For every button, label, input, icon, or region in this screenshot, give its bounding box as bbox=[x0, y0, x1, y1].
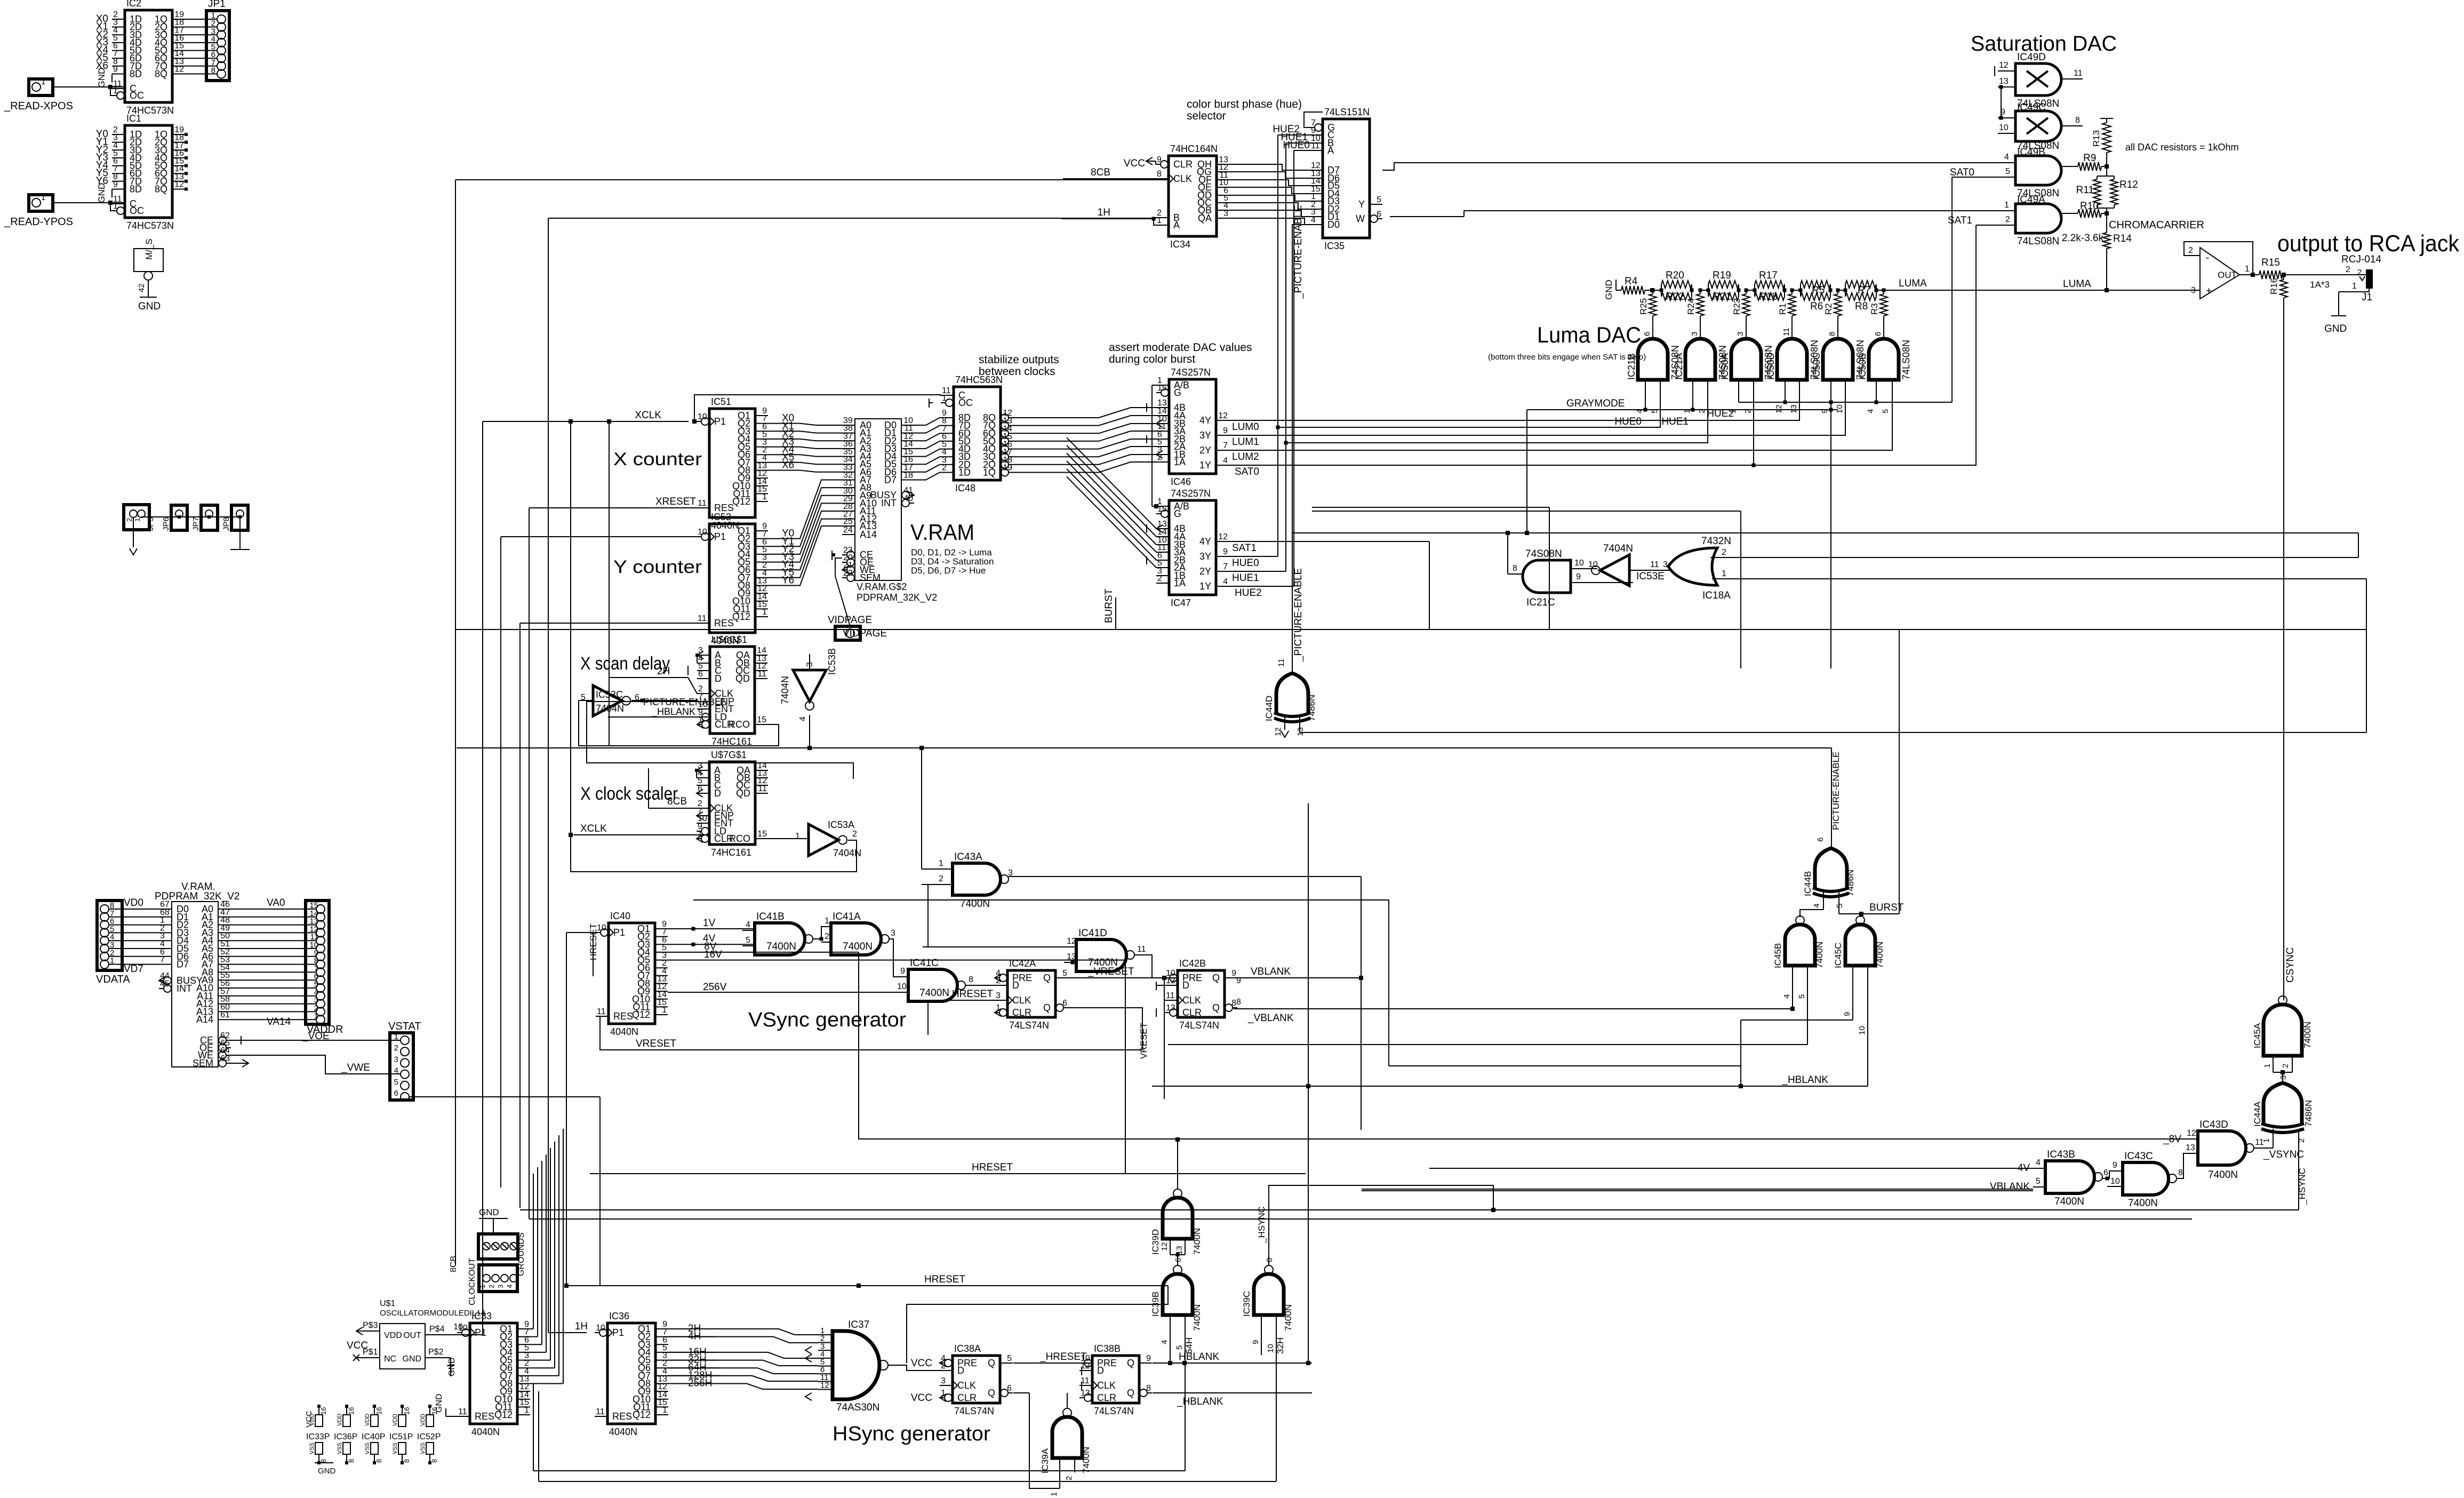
inverter IC53A 7404N bbox=[809, 824, 838, 856]
svg-text:7400N: 7400N bbox=[1081, 1447, 1091, 1473]
svg-text:11: 11 bbox=[698, 614, 707, 623]
svg-text:19: 19 bbox=[1003, 464, 1012, 473]
svg-text:42: 42 bbox=[137, 283, 146, 292]
svg-text:U$1: U$1 bbox=[380, 1299, 395, 1308]
svg-text:IC39B: IC39B bbox=[1150, 1292, 1161, 1317]
svg-text:assert moderate DAC values: assert moderate DAC values bbox=[1109, 341, 1252, 354]
JP1 pin 8 bbox=[217, 70, 226, 78]
wire IC48 C from XCLK bbox=[694, 395, 941, 421]
svg-text:IC2: IC2 bbox=[126, 0, 141, 9]
svg-text:7400N: 7400N bbox=[766, 941, 796, 952]
wire VBLANK riser to IC43B bbox=[1362, 1190, 2033, 1191]
wire Y clock riser bbox=[500, 537, 501, 1188]
svg-text:74LS74N: 74LS74N bbox=[1009, 1020, 1049, 1031]
svg-text:A: A bbox=[1173, 220, 1180, 230]
svg-text:JP5: JP5 bbox=[146, 517, 155, 531]
wire YRESET riser bbox=[519, 623, 521, 1208]
svg-text:X6: X6 bbox=[782, 460, 794, 471]
power block IC36P bbox=[345, 1405, 348, 1408]
jumper M/_S bbox=[134, 249, 163, 272]
svg-text:15: 15 bbox=[757, 715, 766, 724]
oscillator U$1 OSCILLATORMODULEDIL14 bbox=[380, 1324, 425, 1369]
svg-text:D: D bbox=[715, 673, 722, 684]
svg-text:R24: R24 bbox=[1686, 298, 1696, 315]
resistors R11 R12 parallel bbox=[2106, 166, 2107, 176]
svg-text:4: 4 bbox=[1866, 409, 1875, 413]
svg-text:IC50D: IC50D bbox=[1765, 353, 1776, 380]
wire 8CB from top-left down to clock area bbox=[455, 179, 1169, 180]
svg-text:8: 8 bbox=[319, 1459, 327, 1463]
svg-text:11: 11 bbox=[758, 784, 767, 793]
wire IC53A output feedback to XCLK node bbox=[571, 831, 857, 872]
svg-text:10: 10 bbox=[1835, 404, 1844, 413]
svg-text:1: 1 bbox=[762, 608, 767, 617]
svg-text:10: 10 bbox=[897, 982, 907, 991]
svg-text:IC51P: IC51P bbox=[389, 1432, 413, 1441]
svg-text:8: 8 bbox=[347, 1459, 355, 1463]
svg-text:8D: 8D bbox=[130, 69, 142, 79]
wire _HRESET bbox=[1013, 1362, 1092, 1364]
svg-text:GND: GND bbox=[1604, 280, 1614, 300]
svg-text:1: 1 bbox=[698, 830, 702, 839]
mux IC47 74S257N bbox=[1169, 500, 1216, 595]
svg-text:7400N: 7400N bbox=[1192, 1228, 1202, 1255]
wire 32H feed to IC39C bbox=[538, 1391, 539, 1481]
svg-text:1: 1 bbox=[133, 518, 141, 522]
svg-text:6: 6 bbox=[1062, 999, 1067, 1008]
svg-text:SAT1: SAT1 bbox=[1948, 215, 1972, 226]
svg-text:74AS30N: 74AS30N bbox=[836, 1402, 879, 1413]
svg-text:R3: R3 bbox=[1869, 303, 1879, 315]
and gate IC21B 74S08N bbox=[1638, 339, 1668, 380]
svg-text:13: 13 bbox=[1166, 1003, 1175, 1013]
svg-text:10: 10 bbox=[698, 412, 707, 421]
wire IC35 G loop bbox=[1304, 112, 1323, 128]
svg-text:1: 1 bbox=[1050, 1492, 1059, 1496]
power block IC52P bbox=[428, 1405, 431, 1408]
feedback wire RCO U6 to IC53C input bbox=[579, 700, 779, 746]
svg-text:R5: R5 bbox=[1812, 285, 1825, 296]
svg-text:IC43C: IC43C bbox=[2124, 1151, 2153, 1162]
svg-text:A: A bbox=[1327, 145, 1334, 156]
xor IC44B 7486N (vertical) bbox=[1815, 848, 1847, 889]
svg-text:1: 1 bbox=[939, 859, 943, 868]
svg-text:11: 11 bbox=[1311, 141, 1320, 150]
svg-text:JP8: JP8 bbox=[222, 517, 231, 531]
wires Y0-Y6 IC52 to VRAM A7-A13 bbox=[768, 480, 842, 539]
wire XRESET riser bbox=[529, 508, 530, 1219]
svg-text:IC45C: IC45C bbox=[1833, 943, 1843, 968]
svg-text:INT: INT bbox=[881, 498, 897, 508]
resistor pair R18 bbox=[1754, 284, 1755, 297]
svg-text:4: 4 bbox=[1160, 1340, 1169, 1344]
svg-text:2: 2 bbox=[996, 976, 1001, 985]
nand IC43A 7400N bbox=[953, 863, 1001, 895]
svg-text:RES: RES bbox=[475, 1411, 494, 1422]
svg-text:1V: 1V bbox=[703, 918, 716, 929]
svg-text:QA: QA bbox=[1198, 213, 1212, 224]
svg-text:_HSYNC: _HSYNC bbox=[2297, 1168, 2307, 1205]
svg-text:4: 4 bbox=[2004, 153, 2009, 162]
svg-text:6: 6 bbox=[394, 1089, 398, 1098]
flipflop IC38B 74LS74N bbox=[1092, 1356, 1139, 1403]
svg-text:1: 1 bbox=[662, 1006, 667, 1015]
wire VIDPAGE to VRAM A14 bbox=[835, 558, 850, 626]
wire chaining JP5-JP8 bbox=[141, 516, 240, 517]
svg-text:Q12: Q12 bbox=[732, 611, 750, 622]
svg-text:OUT: OUT bbox=[2218, 270, 2237, 280]
svg-text:D: D bbox=[957, 1365, 964, 1376]
shift register IC34 74HC164N bbox=[1169, 156, 1217, 236]
wire 2H riser bbox=[609, 421, 610, 746]
connector VDATA bbox=[97, 901, 122, 970]
svg-text:1H: 1H bbox=[1098, 207, 1110, 218]
svg-text:4040N: 4040N bbox=[609, 1427, 637, 1437]
svg-text:4: 4 bbox=[798, 716, 807, 721]
svg-text:2: 2 bbox=[2281, 1064, 2290, 1068]
svg-text:16: 16 bbox=[430, 1407, 438, 1415]
svg-text:R7: R7 bbox=[1858, 285, 1870, 296]
svg-text:VA14: VA14 bbox=[267, 1016, 291, 1027]
svg-text:VDD: VDD bbox=[392, 1414, 398, 1426]
svg-text:IC40P: IC40P bbox=[362, 1432, 385, 1441]
wire VRAM D to IC48 D bbox=[914, 418, 941, 425]
JP1 pin 4 bbox=[217, 38, 226, 47]
wire IC41C out to IC42A D bbox=[965, 985, 1007, 986]
svg-text:XRESET: XRESET bbox=[655, 496, 696, 507]
wire VSTAT pin6 right bbox=[409, 1096, 600, 1097]
svg-text:7404N: 7404N bbox=[780, 676, 790, 704]
svg-text:2: 2 bbox=[852, 830, 857, 839]
resistor R14 bbox=[2106, 213, 2107, 233]
svg-text:VSS: VSS bbox=[420, 1443, 426, 1454]
svg-text:IC21C: IC21C bbox=[1526, 597, 1555, 608]
svg-text:9: 9 bbox=[2113, 1161, 2117, 1170]
svg-text:1: 1 bbox=[113, 86, 118, 95]
svg-text:IC39A: IC39A bbox=[1040, 1448, 1050, 1473]
resistor R25 bbox=[1651, 289, 1655, 292]
svg-text:Q: Q bbox=[1127, 1388, 1134, 1398]
svg-text:_VWE: _VWE bbox=[341, 1062, 370, 1073]
svg-text:SAT0: SAT0 bbox=[1235, 466, 1259, 477]
CE tie bar bbox=[241, 1036, 242, 1045]
svg-text:P$4: P$4 bbox=[429, 1325, 445, 1334]
svg-text:1: 1 bbox=[2004, 201, 2009, 210]
svg-text:3: 3 bbox=[2279, 1075, 2288, 1080]
svg-text:RES: RES bbox=[714, 618, 734, 628]
svg-text:4Y: 4Y bbox=[1199, 536, 1211, 547]
svg-text:74HC563N: 74HC563N bbox=[955, 374, 1003, 385]
svg-text:9: 9 bbox=[1843, 1012, 1852, 1016]
svg-text:2: 2 bbox=[1722, 548, 1726, 557]
svg-text:8CB: 8CB bbox=[667, 796, 687, 807]
svg-text:Q: Q bbox=[988, 1388, 995, 1398]
svg-text:GND: GND bbox=[447, 1357, 457, 1376]
svg-text:11: 11 bbox=[757, 670, 766, 679]
svg-text:32H: 32H bbox=[1275, 1337, 1285, 1354]
svg-text:11: 11 bbox=[596, 1407, 605, 1416]
connector VADDR bbox=[306, 901, 329, 1024]
svg-text:11: 11 bbox=[1166, 991, 1175, 1000]
svg-text:R6: R6 bbox=[1810, 301, 1823, 312]
svg-text:VSS: VSS bbox=[364, 1443, 371, 1454]
wire gate IC50C pin9 long down bbox=[1830, 380, 1831, 668]
svg-text:VCC: VCC bbox=[1124, 158, 1145, 169]
svg-text:J1: J1 bbox=[2362, 292, 2372, 303]
svg-text:9: 9 bbox=[1157, 155, 1162, 164]
svg-text:1: 1 bbox=[1722, 569, 1726, 578]
svg-text:HSync generator: HSync generator bbox=[833, 1423, 990, 1445]
svg-text:Luma DAC: Luma DAC bbox=[1537, 322, 1641, 347]
svg-text:15: 15 bbox=[1157, 505, 1167, 514]
svg-text:VD7: VD7 bbox=[124, 963, 143, 975]
ground bar below power blocks bbox=[315, 1462, 333, 1463]
svg-text:2: 2 bbox=[941, 1361, 946, 1370]
svg-text:IC50B: IC50B bbox=[1857, 353, 1868, 380]
svg-text:D7: D7 bbox=[177, 959, 189, 970]
wire IC38A Q6 down bbox=[1013, 1392, 1029, 1393]
svg-text:1: 1 bbox=[942, 394, 947, 403]
wire _READ-XPOS to IC2 C/OC bbox=[53, 86, 112, 87]
svg-text:2: 2 bbox=[125, 518, 133, 522]
svg-text:4: 4 bbox=[746, 920, 750, 929]
svg-text:_VOE: _VOE bbox=[302, 1031, 330, 1042]
JP1 pin 7 bbox=[217, 62, 226, 70]
svg-text:1A: 1A bbox=[1174, 578, 1186, 588]
svg-text:1: 1 bbox=[524, 1406, 529, 1415]
svg-text:4: 4 bbox=[1223, 456, 1228, 465]
svg-text:Q: Q bbox=[1043, 973, 1051, 983]
svg-text:G: G bbox=[1174, 387, 1181, 398]
svg-text:V.RAM: V.RAM bbox=[910, 520, 974, 545]
svg-text:color burst phase (hue): color burst phase (hue) bbox=[1187, 98, 1302, 110]
svg-text:11: 11 bbox=[1782, 328, 1791, 336]
svg-text:IC41A: IC41A bbox=[833, 911, 861, 922]
op-amp output wire bbox=[2239, 274, 2259, 275]
svg-text:9: 9 bbox=[113, 180, 118, 189]
svg-text:1: 1 bbox=[2263, 1064, 2272, 1068]
svg-text:GND: GND bbox=[2324, 323, 2347, 334]
svg-text:X clock scaler: X clock scaler bbox=[580, 784, 678, 804]
label HBLANK bbox=[1153, 1362, 1312, 1364]
label _HBLANK bbox=[1153, 1392, 1312, 1393]
svg-text:74HC573N: 74HC573N bbox=[126, 220, 174, 231]
svg-text:6: 6 bbox=[698, 670, 703, 679]
svg-text:24: 24 bbox=[843, 525, 853, 535]
svg-text:8: 8 bbox=[1265, 1258, 1274, 1262]
svg-text:8: 8 bbox=[1513, 564, 1517, 573]
nand IC43C 7400N bbox=[2123, 1162, 2169, 1195]
svg-text:IC43B: IC43B bbox=[2047, 1149, 2075, 1160]
svg-text:IC53E: IC53E bbox=[1636, 571, 1665, 582]
svg-text:CLK: CLK bbox=[1097, 1380, 1116, 1391]
svg-text:P1: P1 bbox=[714, 416, 726, 427]
wire IC35 W output bbox=[1390, 216, 1464, 217]
svg-text:IC43D: IC43D bbox=[2199, 1119, 2228, 1130]
svg-text:8: 8 bbox=[211, 66, 215, 75]
svg-text:9: 9 bbox=[1576, 572, 1581, 581]
svg-text:HUE1: HUE1 bbox=[1661, 416, 1689, 427]
svg-text:IC34: IC34 bbox=[1170, 239, 1190, 250]
svg-text:Y counter: Y counter bbox=[613, 557, 702, 577]
svg-text:CLK: CLK bbox=[957, 1380, 976, 1391]
svg-text:6: 6 bbox=[1816, 838, 1825, 842]
wire A/B select IC46-IC47 bbox=[1151, 385, 1153, 506]
svg-text:1: 1 bbox=[41, 77, 45, 86]
wire HUE route right bbox=[1312, 511, 1741, 512]
JP1 pin 5 bbox=[217, 46, 226, 55]
svg-text:_READ-YPOS: _READ-YPOS bbox=[4, 216, 73, 228]
nand IC43D 7400N bbox=[2198, 1131, 2246, 1165]
wire 64H feed to IC39B bbox=[533, 1383, 534, 1471]
svg-text:2: 2 bbox=[2346, 265, 2350, 274]
svg-text:IC42A: IC42A bbox=[1009, 958, 1036, 969]
svg-text:IC53C: IC53C bbox=[596, 689, 623, 700]
svg-text:IC44A: IC44A bbox=[2252, 1101, 2262, 1127]
svg-text:8CB: 8CB bbox=[1091, 167, 1110, 178]
svg-text:JP1: JP1 bbox=[208, 0, 226, 10]
svg-text:CHROMACARRIER: CHROMACARRIER bbox=[2109, 219, 2204, 231]
svg-text:11: 11 bbox=[458, 1407, 467, 1416]
svg-text:4Y: 4Y bbox=[1199, 415, 1211, 426]
svg-text:IC39C: IC39C bbox=[1242, 1291, 1252, 1317]
nand IC39C 7400N (vertical) bbox=[1254, 1274, 1284, 1315]
svg-text:R15: R15 bbox=[2261, 257, 2280, 268]
svg-text:7400N: 7400N bbox=[2302, 1022, 2313, 1048]
svg-text:5: 5 bbox=[2036, 1177, 2041, 1186]
wires IC48 outputs fan to IC47 inputs (long diagonals) bbox=[1067, 437, 1156, 529]
svg-text:1A*3: 1A*3 bbox=[2310, 280, 2330, 290]
svg-text:IC44D: IC44D bbox=[1264, 696, 1274, 721]
svg-text:IC52: IC52 bbox=[711, 512, 731, 522]
svg-text:R23: R23 bbox=[1732, 298, 1742, 315]
svg-text:1: 1 bbox=[996, 1003, 1001, 1013]
xor-and IC49C 74LS08N bbox=[2015, 111, 2061, 141]
svg-text:1Y: 1Y bbox=[1199, 581, 1211, 592]
svg-text:11: 11 bbox=[597, 1007, 606, 1016]
svg-text:1: 1 bbox=[1157, 216, 1162, 225]
svg-text:16: 16 bbox=[319, 1407, 327, 1415]
svg-text:Q: Q bbox=[1043, 1002, 1051, 1013]
svg-text:12: 12 bbox=[1999, 61, 2009, 70]
svg-text:CLK: CLK bbox=[1173, 173, 1192, 184]
svg-text:5: 5 bbox=[1007, 1354, 1012, 1363]
counter IC52 4040N bbox=[709, 524, 755, 633]
svg-text:16: 16 bbox=[375, 1407, 383, 1415]
resistor R1 bbox=[1790, 289, 1794, 292]
svg-text:9: 9 bbox=[113, 65, 118, 74]
svg-text:9: 9 bbox=[1146, 1354, 1151, 1363]
svg-text:6: 6 bbox=[1874, 332, 1883, 336]
svg-text:VRESET: VRESET bbox=[1139, 1023, 1149, 1059]
svg-text:4: 4 bbox=[2036, 1158, 2041, 1167]
svg-text:_VBLANK: _VBLANK bbox=[1247, 1013, 1294, 1024]
svg-text:74HC164N: 74HC164N bbox=[1170, 144, 1218, 154]
svg-text:D: D bbox=[1182, 980, 1189, 991]
svg-text:OC: OC bbox=[130, 205, 144, 216]
svg-text:6: 6 bbox=[1643, 332, 1652, 336]
svg-text:P1: P1 bbox=[613, 927, 625, 938]
svg-text:8: 8 bbox=[2178, 1168, 2183, 1177]
nand IC41B 7400N bbox=[755, 923, 805, 955]
wire SAT net to IC49A pin2 bbox=[1229, 225, 1976, 465]
svg-text:Q: Q bbox=[988, 1358, 995, 1368]
svg-text:11: 11 bbox=[2255, 1138, 2264, 1147]
svg-text:2: 2 bbox=[2297, 1138, 2306, 1143]
resistor pair R8 bbox=[1845, 284, 1846, 297]
svg-text:2: 2 bbox=[487, 1285, 495, 1288]
svg-text:VRESET: VRESET bbox=[636, 1038, 676, 1049]
svg-text:IC52P: IC52P bbox=[417, 1432, 441, 1441]
wire spare bus 2285 bbox=[529, 1218, 2192, 1220]
svg-text:during color burst: during color burst bbox=[1109, 353, 1195, 365]
svg-text:1: 1 bbox=[795, 832, 800, 841]
svg-text:IC33: IC33 bbox=[471, 1311, 492, 1321]
svg-text:7432N: 7432N bbox=[1701, 536, 1731, 547]
svg-text:GND: GND bbox=[402, 1354, 421, 1364]
svg-text:3: 3 bbox=[2191, 286, 2196, 295]
svg-text:1: 1 bbox=[825, 917, 829, 926]
svg-text:Q12: Q12 bbox=[632, 1009, 650, 1020]
mux IC35 74LS151N bbox=[1323, 119, 1370, 238]
svg-text:22: 22 bbox=[843, 569, 853, 578]
JP1 pin 3 bbox=[217, 30, 226, 39]
svg-text:4: 4 bbox=[1812, 904, 1821, 908]
svg-text:-: - bbox=[2206, 252, 2209, 264]
svg-text:74S257N: 74S257N bbox=[1171, 367, 1211, 378]
svg-text:IC18A: IC18A bbox=[1702, 590, 1731, 601]
port _READ-XPOS bbox=[29, 79, 53, 95]
wire SAT1 route right bbox=[1312, 507, 1549, 508]
svg-text:XCLK: XCLK bbox=[635, 410, 661, 421]
wire 8V to _8V long wire bbox=[858, 952, 859, 1140]
resistor R13 bbox=[2100, 118, 2113, 119]
svg-text:_HBLANK: _HBLANK bbox=[1781, 1074, 1828, 1086]
svg-text:VSync generator: VSync generator bbox=[748, 1009, 906, 1031]
svg-text:R11: R11 bbox=[2076, 185, 2094, 196]
resistor R4 bbox=[1621, 286, 1645, 294]
svg-text:2: 2 bbox=[2005, 215, 2010, 224]
svg-text:8: 8 bbox=[2075, 116, 2080, 125]
svg-text:IC53A: IC53A bbox=[828, 819, 854, 830]
SEM arrow bbox=[242, 1059, 249, 1067]
svg-text:R17: R17 bbox=[1759, 270, 1778, 281]
svg-text:10: 10 bbox=[2110, 1177, 2120, 1186]
svg-text:IC36: IC36 bbox=[609, 1311, 629, 1321]
svg-text:7400N: 7400N bbox=[2208, 1169, 2238, 1181]
svg-text:7486N: 7486N bbox=[2303, 1100, 2314, 1127]
svg-text:GRAYMODE: GRAYMODE bbox=[1566, 398, 1625, 409]
power block IC33P bbox=[317, 1405, 321, 1408]
svg-text:A14: A14 bbox=[196, 1014, 213, 1025]
svg-text:Q: Q bbox=[1212, 973, 1220, 983]
svg-text:D5, D6, D7 -> Hue: D5, D6, D7 -> Hue bbox=[911, 565, 986, 576]
svg-text:5: 5 bbox=[1835, 904, 1844, 908]
nand IC41D 7400N bbox=[1076, 939, 1126, 971]
svg-text:GND: GND bbox=[138, 301, 161, 312]
svg-text:HRESET: HRESET bbox=[952, 989, 993, 1000]
svg-text:2: 2 bbox=[2188, 246, 2193, 255]
svg-text:R19: R19 bbox=[1713, 270, 1731, 281]
svg-text:IC50A: IC50A bbox=[1719, 353, 1730, 380]
svg-text:CLK: CLK bbox=[1182, 995, 1201, 1006]
svg-text:IC36P: IC36P bbox=[334, 1432, 357, 1441]
svg-text:CLR: CLR bbox=[957, 1392, 977, 1403]
svg-text:V.RAM.G$2: V.RAM.G$2 bbox=[857, 581, 907, 592]
svg-text:CSYNC: CSYNC bbox=[2285, 947, 2296, 983]
svg-text:Q: Q bbox=[1127, 1358, 1134, 1368]
svg-text:6: 6 bbox=[698, 784, 702, 793]
